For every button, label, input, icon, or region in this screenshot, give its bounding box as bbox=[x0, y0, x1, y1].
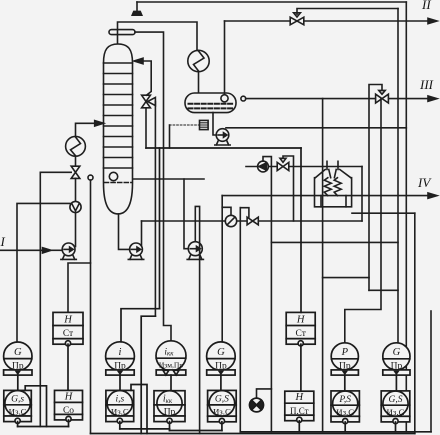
pump P1 feed pump bbox=[61, 243, 76, 259]
gauge P pressure bbox=[331, 343, 358, 372]
wire dotted sample line bbox=[170, 124, 200, 126]
arrow reflux bbox=[134, 58, 143, 64]
valve on reboiler pipe bbox=[247, 217, 258, 225]
wire reboiler pipe y=221 bbox=[142, 220, 363, 222]
wire square5 stub bbox=[221, 422, 223, 431]
wire jog chain3 corrector output bbox=[131, 385, 147, 434]
svg-text:II: II bbox=[421, 0, 431, 12]
svg-text:G: G bbox=[14, 347, 22, 358]
svg-text:H: H bbox=[63, 315, 73, 326]
wire gauge4 to square4 bbox=[170, 375, 172, 391]
arrow feed bbox=[95, 121, 104, 126]
drum outlet nozzle bbox=[241, 96, 246, 101]
valve reflux 3-way bbox=[142, 95, 156, 108]
svg-text:H: H bbox=[295, 392, 305, 403]
wire y=242 link bbox=[271, 241, 398, 243]
square instrument G,S corrector mid bbox=[208, 390, 237, 423]
gauge i_kk analyzer bbox=[156, 341, 186, 371]
square instrument G,S corrector right bbox=[381, 391, 410, 424]
wire bus C bbox=[170, 430, 222, 432]
svg-text:Ст: Ст bbox=[296, 329, 307, 339]
box instrument H level St bbox=[53, 312, 83, 346]
arrow I bbox=[43, 248, 52, 253]
wire reflux line y=148 bbox=[146, 147, 301, 149]
wire box2a to box2b bbox=[67, 344, 69, 390]
svg-text:i: i bbox=[119, 347, 122, 358]
svg-text:H: H bbox=[296, 315, 306, 326]
wire I to pump bbox=[49, 249, 63, 251]
wire V6 signal bbox=[283, 156, 294, 221]
svg-text:P: P bbox=[341, 347, 349, 358]
wire right drop x=398 to gauge G bbox=[397, 9, 399, 344]
wire square1 stub bbox=[17, 422, 19, 427]
wire drop x=301 to H box bbox=[300, 148, 302, 312]
line I feed bbox=[0, 249, 44, 251]
svg-text:Из.С: Из.С bbox=[213, 407, 231, 417]
wire x=322 drop bbox=[322, 99, 324, 432]
wire gauge7 to square7 bbox=[344, 375, 346, 391]
wire coil loop riser bbox=[361, 167, 363, 222]
square instrument i_kk recorder bbox=[154, 391, 185, 424]
wire bracket to valve bbox=[240, 208, 249, 217]
svg-text:П.Ст: П.Ст bbox=[290, 406, 309, 416]
base bracket 4 bbox=[156, 370, 186, 375]
wire gauge3 to square3 bbox=[119, 375, 121, 390]
arrow III bbox=[428, 96, 437, 101]
wire square4 stub bbox=[169, 422, 171, 431]
wire drum to pump P2 bbox=[213, 113, 216, 135]
level tap node bbox=[88, 175, 93, 180]
box instrument H level St right bbox=[286, 312, 315, 346]
column level dashed line bbox=[105, 182, 133, 184]
svg-text:iкк: iкк bbox=[164, 347, 174, 357]
wire IV product bbox=[222, 195, 429, 197]
wire bus D right bbox=[240, 431, 431, 433]
wire temperature signal bbox=[135, 32, 171, 341]
svg-text:Ст: Ст bbox=[63, 329, 74, 339]
wire coil header y=166.5 bbox=[246, 166, 362, 168]
rotameter bbox=[70, 201, 81, 212]
base bracket 7 bbox=[331, 370, 358, 375]
wire square8 stub bbox=[395, 422, 397, 432]
condensate pot bbox=[200, 120, 209, 129]
line III bbox=[246, 98, 429, 100]
pump circle P5 bbox=[258, 161, 269, 172]
wire pump P4 hook bbox=[195, 206, 199, 433]
quadrant converter bbox=[250, 398, 264, 412]
svg-text:G: G bbox=[393, 347, 401, 358]
valve III bbox=[376, 90, 389, 103]
column level tap circle bbox=[109, 172, 117, 180]
svg-text:Из.С: Из.С bbox=[111, 407, 129, 417]
box instrument H P.St controller bbox=[285, 391, 314, 422]
base bracket 3 bbox=[106, 370, 134, 375]
svg-text:G,s: G,s bbox=[11, 394, 24, 404]
wire pump P2 discharge bbox=[226, 127, 406, 129]
wire pump P3 discharge riser bbox=[141, 221, 143, 245]
wire valve to rotameter bbox=[75, 178, 77, 201]
wire square3 stub bbox=[119, 422, 121, 429]
condenser HX bbox=[188, 50, 209, 71]
drum hatch rows bbox=[189, 104, 233, 109]
wire valve II signal bbox=[297, 9, 398, 15]
wire x=415 drop bbox=[414, 213, 416, 433]
wire y=213 bbox=[352, 212, 415, 214]
wire condenser to drum bbox=[198, 72, 200, 94]
svg-text:IV: IV bbox=[417, 175, 432, 190]
svg-text:III: III bbox=[419, 77, 434, 92]
wire gauge8 to square8 bbox=[395, 375, 397, 391]
base bracket 1 bbox=[4, 370, 32, 375]
wire column bottoms bbox=[119, 214, 130, 250]
wire square7 stub bbox=[344, 422, 346, 432]
analyzer triangles bbox=[163, 370, 179, 375]
wire gauge5 to square5 bbox=[220, 375, 222, 390]
svg-text:Из.С: Из.С bbox=[9, 407, 27, 417]
gauge G flow recorder bbox=[4, 342, 32, 371]
pump P2 reflux pump bbox=[215, 129, 230, 145]
wire P5 hook bbox=[263, 157, 271, 432]
wire bus B bbox=[120, 428, 170, 430]
gauge G mid flow bbox=[207, 342, 236, 371]
wire gauge1 to square1 bbox=[17, 375, 19, 390]
wire box6b stub bbox=[298, 421, 300, 432]
svg-text:Изм,Пр: Изм,Пр bbox=[159, 361, 184, 370]
wire box2b stub bbox=[68, 420, 70, 427]
square instrument G,s corrector bbox=[4, 390, 32, 423]
wire bus A bbox=[18, 426, 69, 428]
svg-text:i,s: i,s bbox=[115, 394, 124, 404]
wire reflux riser below valve bbox=[145, 108, 147, 148]
wire 3way side port drop bbox=[154, 102, 156, 317]
reflux drum bbox=[185, 93, 236, 113]
wire y=277 link bbox=[323, 277, 369, 279]
coil bottom stubs bbox=[321, 196, 346, 207]
arrow IV bbox=[428, 193, 437, 198]
svg-text:G,S: G,S bbox=[389, 395, 403, 405]
cooler box bbox=[315, 178, 352, 207]
wire H step from pump area bbox=[68, 263, 91, 312]
wire level line from column bbox=[133, 178, 204, 180]
svg-text:H: H bbox=[64, 391, 74, 402]
pump P4 bbox=[187, 242, 203, 260]
wire sample drop bbox=[169, 125, 171, 148]
wire x=381 drop to P gauge bbox=[345, 99, 381, 343]
flare vent symbol bbox=[132, 2, 142, 15]
square instrument i,s corrector bbox=[106, 390, 134, 423]
base bracket 5 bbox=[207, 370, 235, 375]
wire mid drop x=159.5 bbox=[159, 148, 161, 309]
wire drop to pump P4 bbox=[184, 179, 188, 249]
wire HX to valve bbox=[75, 156, 77, 166]
wire flow sensor G bbox=[17, 203, 70, 342]
wire reflux to column top bbox=[142, 61, 151, 95]
svg-text:G,S: G,S bbox=[215, 395, 229, 405]
temperature probe in overhead bbox=[109, 30, 135, 35]
wire bottom line mid bbox=[91, 433, 415, 435]
wire drop x=240 bbox=[239, 208, 241, 432]
valve V6 bbox=[277, 158, 289, 170]
gauge G right flow bbox=[383, 343, 410, 372]
wire flare header y=2 bbox=[137, 1, 406, 3]
gauge i temperature bbox=[106, 342, 135, 372]
wire bracket to flow circle bbox=[222, 207, 231, 215]
wire quadrant elbow bbox=[257, 389, 272, 398]
cooler funnels bbox=[315, 170, 351, 178]
wire y=290 link bbox=[369, 289, 398, 291]
wire feed into column bbox=[76, 123, 97, 136]
wire feed valve signal bbox=[40, 171, 71, 173]
wire gas riser to II bbox=[224, 21, 226, 95]
wire rotameter to pump bbox=[75, 213, 77, 247]
line II bbox=[225, 20, 430, 22]
wire valve III signal bracket bbox=[369, 85, 382, 291]
coil zigzag right bbox=[334, 178, 341, 196]
wire feed valve signal drop bbox=[39, 172, 41, 426]
wire trunk to gauge i bbox=[121, 309, 160, 342]
wire drop x=141 bbox=[141, 316, 155, 433]
valve II bbox=[290, 13, 304, 25]
preheater HX bbox=[66, 136, 86, 156]
wire right edge drop bbox=[430, 311, 432, 432]
pump P3 bottoms pump bbox=[128, 243, 143, 259]
svg-text:P,S: P,S bbox=[338, 395, 351, 405]
wire jog left corrector output bbox=[25, 386, 46, 427]
valve feed control bbox=[71, 166, 80, 178]
column trays bbox=[104, 63, 133, 168]
square instrument P,S corrector bbox=[331, 391, 359, 424]
box instrument H Co controller bbox=[55, 390, 83, 421]
coil zigzag left bbox=[324, 178, 331, 196]
wire trunk to gauge G mid bbox=[221, 196, 223, 343]
drum gas nozzle bbox=[221, 95, 228, 102]
arrow II bbox=[428, 18, 437, 23]
wire right drop x=406 bbox=[405, 2, 407, 432]
flow circle on reboiler pipe bbox=[225, 215, 236, 226]
base bracket 8 bbox=[383, 370, 410, 375]
wire overhead vapor bbox=[118, 22, 198, 51]
svg-text:I: I bbox=[0, 234, 6, 249]
svg-text:G: G bbox=[217, 347, 225, 358]
cooler feed pipes bbox=[327, 161, 338, 169]
column K1 bbox=[104, 44, 133, 214]
wire box6a to box6b bbox=[300, 344, 302, 391]
wire level standpipe bbox=[90, 180, 92, 433]
